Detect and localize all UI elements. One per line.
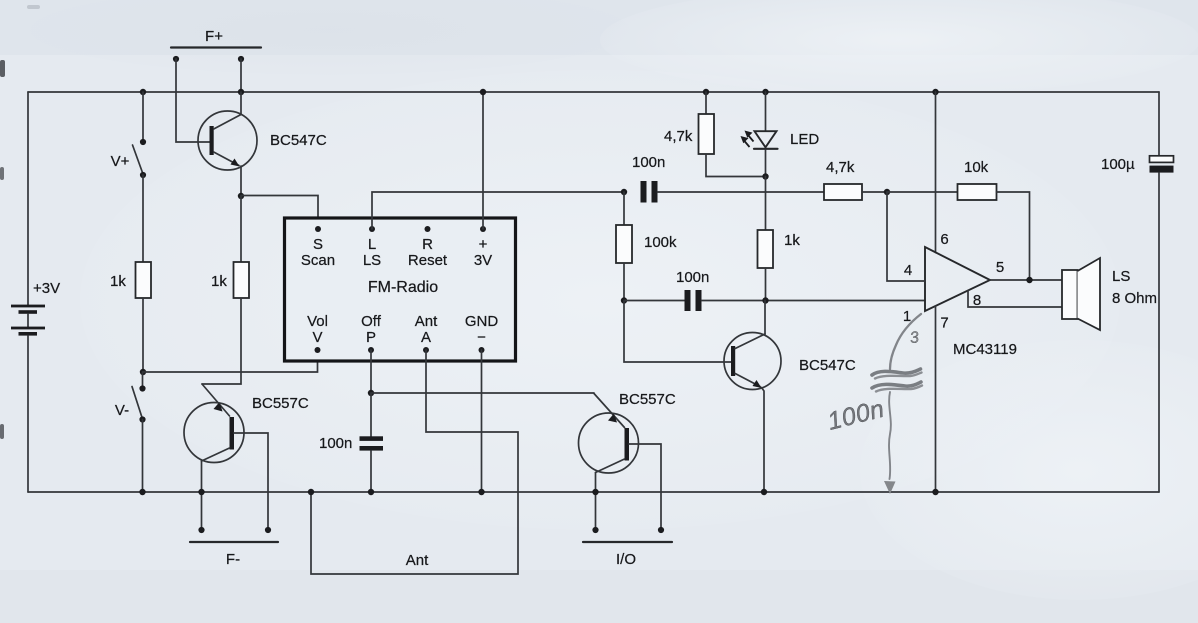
wire cap to op-amp pin1 [702,300,926,302]
svg-text:6: 6 [940,231,948,248]
resistor 10k [958,159,997,200]
wire 1k second to Q2 emitter [202,298,241,384]
wire + pin to top rail [482,92,484,229]
wire Q3 collector up [764,301,766,335]
svg-text:A: A [421,329,431,346]
wire F+ left to transistor base [176,59,210,142]
wire 1k left to Vol node [142,298,144,372]
node junction output feedback [1026,277,1032,283]
node junction Vol wire [140,369,146,375]
transistor Q1 BC547C top left [198,111,327,170]
pencil numeral 3 [909,329,920,347]
node junction ground rail Q3 [761,489,767,495]
wire audio line cap to 4.7k [658,191,825,193]
svg-text:100µ: 100µ [1101,156,1135,173]
svg-text:Off: Off [361,313,382,330]
svg-text:Scan: Scan [301,252,335,269]
node junction ground rail antenna [308,489,314,495]
svg-text:LS: LS [363,252,381,269]
wire GND pin to ground rail [481,350,483,492]
wire collector Q1 to rail [240,92,242,115]
pencil handwritten 100n [825,395,888,436]
node junction top rail at collector [238,89,244,95]
node junction ground rail collector Q4 [592,489,598,495]
diode LED [741,131,820,149]
svg-text:V+: V+ [111,153,130,170]
svg-text:1k: 1k [110,273,126,290]
wire switch V+ to resistor [142,175,144,262]
resistor 1k right [758,177,801,301]
terminal I/O [583,527,672,568]
wire P node to Q4 emitter [371,392,594,394]
switch V- [115,372,146,423]
wire Vol pin run [143,350,318,372]
wire pin 5 output to speaker [990,279,1062,281]
svg-text:+3V: +3V [33,280,60,297]
wire left battery branch lower [27,336,29,492]
node junction on top rail at V+ branch [140,89,146,95]
wire emitter Q1 down [240,166,242,196]
node junction ground rail GND pin [478,489,484,495]
svg-text:FM-Radio: FM-Radio [368,279,438,296]
transistor Q3 BC547C right [724,333,856,390]
capacitor 100n coupling top [632,154,665,203]
scan artifact marks at left edge [0,5,40,439]
terminal F- [190,527,278,568]
wire rail to LED [765,92,767,131]
svg-text:Ant: Ant [406,552,429,569]
svg-text:8 Ohm: 8 Ohm [1112,290,1157,307]
svg-text:BC557C: BC557C [619,391,676,408]
wire V- to ground rail [142,420,144,493]
node junction top rail 3V pin [480,89,486,95]
svg-text:10k: 10k [964,159,989,176]
svg-text:100n: 100n [632,154,665,171]
wire V+ branch from rail [142,92,144,142]
resistor 1k second [211,262,249,298]
node junction P branch [368,390,374,396]
node junction top rail pin6 [932,89,938,95]
resistor 4.7k vertical [664,92,714,154]
IC U1 FM-Radio block [285,218,516,361]
node junction ground rail collector Q2 [198,489,204,495]
wire P pin down [370,350,372,393]
node junction collector Q3 [762,297,768,303]
resistor 1k left [110,262,151,298]
wire right supply rail upper [1158,92,1160,156]
transistor Q4 BC557C center [579,391,676,473]
wire antenna loop from A pin [311,350,518,574]
svg-text:100k: 100k [644,234,677,251]
svg-text:F+: F+ [205,28,223,45]
wire 10k to output node [997,192,1030,280]
svg-text:R: R [422,236,433,253]
wire bottom ground rail [28,491,1159,493]
wire top supply rail [28,91,1159,93]
svg-text:−: − [477,329,486,346]
wire Q2 base to F- right [234,433,268,530]
svg-text:S: S [313,236,323,253]
wire pin 7 to ground [935,306,937,492]
svg-text:I/O: I/O [616,551,636,568]
node junction ground rail pin7 [932,489,938,495]
pencil capacitor plates [872,369,922,392]
svg-text:7: 7 [940,315,948,332]
svg-text:1k: 1k [784,232,800,249]
label Ant [406,552,429,569]
svg-text:Vol: Vol [307,313,328,330]
node junction 100k bottom [621,297,627,303]
pencil annotation curve from pin1 [890,314,921,369]
capacitor 100n coupling mid [676,269,709,311]
svg-text:V: V [312,329,322,346]
svg-text:4,7k: 4,7k [664,128,693,145]
svg-text:4: 4 [904,262,912,279]
wire emitter node to 1k [240,196,242,262]
wire right rail lower [1158,173,1160,492]
svg-text:Ant: Ant [415,313,438,330]
wire pin 4 input [887,192,925,281]
switch V+ [111,139,146,178]
capacitor 100u electrolytic [1101,156,1174,173]
node junction ground rail V- [139,489,145,495]
speaker LS 8 Ohm [1062,258,1157,330]
resistor 100k [616,192,677,301]
svg-text:GND: GND [465,313,499,330]
svg-text:BC547C: BC547C [270,132,327,149]
wire 4.7k bottom to LED node [706,154,766,177]
svg-text:5: 5 [996,259,1004,276]
node junction LED 4.7k 1k [762,173,768,179]
wire node to 10k [887,191,958,193]
op-amp U2 MC43119 [903,231,1017,358]
svg-text:BC557C: BC557C [252,395,309,412]
battery +3V [11,280,60,336]
wire 100k node to Q3 base [624,301,731,363]
wire Q4 base to I/O right [629,444,661,530]
wire pin 6 from rail [935,92,937,253]
node junction feedback input [884,189,890,195]
svg-text:MC43119: MC43119 [953,341,1017,358]
svg-text:L: L [368,236,376,253]
node junction ground rail P cap [368,489,374,495]
wire 4.7k to feedback node [862,191,887,193]
svg-text:1k: 1k [211,273,227,290]
wire LED to node [765,150,767,177]
svg-text:LS: LS [1112,268,1130,285]
wire audio line to pin1 [624,300,685,302]
wire Q4 collector to ground and I/O left [595,473,597,531]
transistor Q2 BC557C left [184,384,309,463]
wire Q2 collector to ground and F- left [201,461,203,530]
node junction top rail 4.7k [703,89,709,95]
wire left battery branch upper [27,92,29,306]
svg-text:100n: 100n [676,269,709,286]
node junction top rail LED [762,89,768,95]
node junction emitter Q1 [238,193,244,199]
pencil wire to ground with arrow [884,392,896,494]
svg-text:BC547C: BC547C [799,357,856,374]
svg-text:P: P [366,329,376,346]
svg-text:Reset: Reset [408,252,448,269]
terminal F+ [171,28,261,62]
wire F+ right to rail [240,59,242,92]
svg-text:LED: LED [790,131,819,148]
svg-text:F-: F- [226,551,240,568]
svg-text:100n: 100n [319,435,352,452]
wire Q3 emitter to ground [762,388,765,493]
wire L pin to audio line [372,192,624,229]
wire pin 8 to speaker [968,291,1062,308]
svg-text:V-: V- [115,402,129,419]
svg-text:3V: 3V [474,252,492,269]
svg-text:+: + [479,236,488,253]
node junction audio line at 100k [621,189,627,195]
svg-text:4,7k: 4,7k [826,159,855,176]
capacitor 100n at P pin [319,393,383,492]
resistor 4.7k horizontal [824,159,862,200]
wire emitter node to S pin [241,196,318,230]
